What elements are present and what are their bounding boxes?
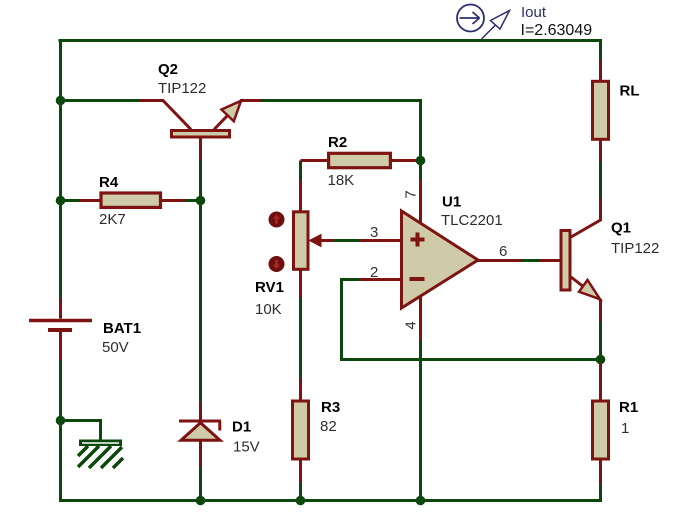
svg-text:4: 4 [403, 321, 420, 329]
svg-text:2K7: 2K7 [99, 211, 126, 228]
svg-text:I=2.63049: I=2.63049 [521, 22, 593, 39]
svg-text:82: 82 [320, 418, 337, 435]
op-amp U1 [359, 179, 522, 341]
ground [78, 440, 123, 469]
wire right rail top segment [599, 39, 602, 60]
wire D1 cathode to bottom rail [199, 466, 202, 501]
node junction left-collector [56, 96, 66, 106]
wire left rail upper segment [59, 39, 62, 299]
svg-text:TIP122: TIP122 [611, 240, 659, 257]
wire Q1 emitter to node [599, 319, 602, 360]
svg-text:R4: R4 [99, 174, 119, 191]
resistor R1 [593, 362, 609, 484]
wire R4 right to base node [186, 199, 201, 202]
battery BAT1 [29, 298, 92, 360]
diode D1 (zener) [179, 402, 221, 467]
svg-text:Q1: Q1 [611, 220, 631, 237]
svg-text:3: 3 [370, 224, 378, 241]
svg-text:Iout: Iout [521, 4, 547, 21]
node junction pin4-bottom [416, 496, 426, 506]
svg-text:RV1: RV1 [255, 279, 284, 296]
node junction base-R4-D1 [196, 196, 206, 206]
wire RV1 bottom to R3 [299, 297, 302, 378]
wire RV1 wiper to pin 3 [332, 239, 360, 242]
resistor R4 [79, 193, 186, 207]
wire R1 bottom to rail [599, 483, 602, 501]
svg-text:10K: 10K [255, 301, 282, 318]
svg-text:R3: R3 [321, 399, 340, 416]
svg-text:D1: D1 [232, 419, 251, 436]
node junction R3-bottom [296, 496, 306, 506]
resistor RL [593, 59, 609, 161]
wire R3 bottom to rail [299, 482, 302, 501]
node junction D1-bottom [196, 496, 206, 506]
transistor Q1 [540, 198, 601, 321]
svg-text:BAT1: BAT1 [103, 320, 141, 337]
wire R2 left corner down to RV1 [299, 161, 302, 182]
current probe Iout [457, 5, 510, 40]
svg-text:Q2: Q2 [158, 61, 178, 78]
wire pin 4 to bottom rail [419, 340, 422, 501]
wire top rail [59, 39, 603, 42]
svg-text:RL: RL [620, 83, 640, 100]
resistor R2 [301, 153, 417, 167]
svg-text:TIP122: TIP122 [158, 80, 206, 97]
wire node down to D1 [199, 201, 202, 403]
svg-text:2: 2 [370, 264, 378, 281]
svg-text:7: 7 [403, 190, 420, 198]
wire Q2 base down to node [199, 158, 202, 201]
svg-text:R1: R1 [619, 399, 638, 416]
potentiometer RV1 [269, 180, 334, 298]
svg-text:18K: 18K [328, 172, 355, 189]
wire op-amp output to Q1 base [522, 259, 541, 262]
wire Q2 collector net [61, 99, 141, 102]
wire left rail lower segment [61, 359, 603, 501]
node junction Q1emitter-R1 [596, 355, 606, 365]
node junction R2-pin7 [416, 156, 426, 166]
node junction left-R4 [56, 196, 66, 206]
wire pin 2 feedback to R1 top node [342, 280, 601, 360]
svg-text:1: 1 [621, 420, 629, 437]
wire R4 left lead net [61, 199, 81, 202]
svg-text:6: 6 [499, 243, 507, 260]
wire ground branch [61, 421, 101, 441]
node junction left-ground [56, 416, 66, 426]
wire Q2 emitter to op-amp V+ [260, 101, 421, 181]
svg-text:R2: R2 [328, 134, 347, 151]
wire Q1 collector to RL [599, 160, 602, 198]
transistor Q2 [139, 101, 261, 161]
svg-text:15V: 15V [233, 439, 260, 456]
svg-text:TLC2201: TLC2201 [441, 212, 503, 229]
resistor R3 [293, 378, 309, 483]
svg-text:50V: 50V [102, 339, 129, 356]
svg-text:U1: U1 [442, 194, 461, 211]
